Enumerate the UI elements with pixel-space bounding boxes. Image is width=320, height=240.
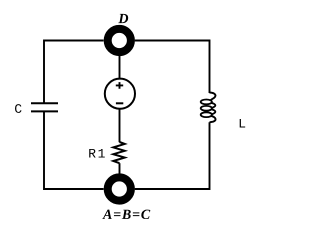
voltage source minus sign	[116, 102, 123, 104]
voltage source V1	[105, 79, 135, 109]
wire right-bottom segment	[135, 122, 210, 189]
wire source to resistor R1	[119, 109, 121, 142]
inductor L coil turn 1	[201, 100, 212, 105]
node D junction ring	[108, 29, 131, 52]
wire top-left segment	[44, 41, 104, 104]
node A=B=C junction ring	[108, 177, 131, 200]
inductor L top hook	[210, 93, 216, 101]
inductor L connector turn1-turn2	[212, 103, 216, 108]
capacitor C value label	[15, 104, 22, 113]
node D label	[118, 14, 128, 23]
inductor L connector turn2-turn3	[212, 109, 216, 114]
wire top-right segment	[135, 41, 210, 94]
wire left-bottom segment	[44, 111, 104, 189]
voltage source plus sign	[116, 82, 123, 89]
inductor L value label	[240, 119, 245, 128]
resistor R1	[113, 142, 124, 163]
capacitor C	[31, 103, 58, 111]
node A=B=C label	[102, 210, 150, 219]
resistor R1 value label	[89, 149, 105, 158]
inductor L coil turn 2	[201, 106, 212, 111]
wire node D to source	[119, 56, 121, 79]
wire resistor R1 to bottom node	[119, 163, 121, 173]
inductor L coil turn 3	[201, 112, 212, 117]
inductor L bottom hook	[210, 116, 216, 122]
